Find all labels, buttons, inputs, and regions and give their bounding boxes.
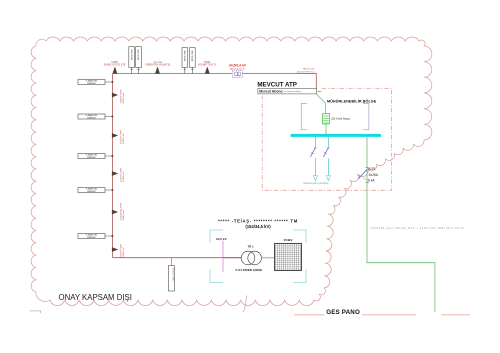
revision cloud: ONAY KAPSAM DIŞI boundary — [31, 37, 432, 312]
feeder label box B2 — [78, 114, 113, 119]
svg-text:VOLMHT GYB TL: VOLMHT GYB TL — [198, 65, 217, 67]
svg-text:36kV 630A: 36kV 630A — [183, 50, 186, 61]
feeder label box B5 — [78, 234, 113, 239]
svg-text:3x400 mm²: 3x400 mm² — [122, 209, 125, 220]
svg-text:3x(1x95/16) XLPE: 3x(1x95/16) XLPE — [120, 202, 122, 220]
feeder tap arrow L3 + cable label — [112, 167, 125, 182]
enclosure: TM corner brackets (teal) — [210, 230, 306, 283]
label: MÜHÜRLENEBİLİR BÖLGE — [327, 99, 377, 104]
svg-text:L2=4x10 mm² (3F+N) NYY + 1x10: L2=4x10 mm² (3F+N) NYY + 1x10 mm² (PE) N… — [370, 226, 466, 230]
node: ATP feed corner labels (cable tags) — [297, 67, 316, 73]
svg-text:GES PANO: GES PANO — [326, 309, 360, 316]
svg-text:3x95/16 XLPE: 3x95/16 XLPE — [172, 268, 174, 281]
svg-text:(154/34,5 kV): (154/34,5 kV) — [245, 224, 271, 229]
svg-text:36kV 630A: 36kV 630A — [137, 49, 140, 60]
svg-text:3x400 mm²: 3x400 mm² — [122, 133, 125, 144]
svg-text:36kV 630A: 36kV 630A — [130, 49, 133, 60]
svg-text:MERKEZİ: MERKEZİ — [87, 236, 96, 239]
svg-text:Mevcut Abone: ···············: Mevcut Abone: ··············· — [259, 90, 301, 94]
svg-text:***** -TEİAŞ- ******** ******: ***** -TEİAŞ- ******** ****** TM — [218, 218, 298, 223]
svg-text:6 kA: 6 kA — [368, 178, 375, 182]
cable tag (vertical) on bottom run — [168, 258, 174, 291]
breaker iAOS 4x25A 6kA (open blade) — [357, 167, 379, 182]
surge arrester arrow A1 on top bus + value label — [104, 62, 126, 74]
bus: 34,5 kV bus (magenta) — [222, 241, 224, 273]
meter M1: Çift Yönlü Sayaç (bidirectional kWh meter) — [323, 114, 351, 125]
wire: GES feed (green) busbar to GES PANO — [367, 137, 435, 312]
svg-text:3x95/16 XLPE: 3x95/16 XLPE — [120, 89, 122, 104]
svg-text:TMŞB: TMŞB — [204, 62, 211, 64]
fuse-disconnector pair F2 — [182, 48, 195, 74]
svg-text:iAOS: iAOS — [368, 167, 376, 171]
seal area bracket left — [301, 103, 307, 130]
wire: metered feed (green) into meter — [316, 94, 325, 114]
busbar: LV distribution bar (cyan) — [291, 134, 381, 137]
svg-text:MEVCUT ATP: MEVCUT ATP — [257, 82, 297, 89]
svg-text:SKMKLYD GYD ŞTB: SKMKLYD GYD ŞTB — [104, 65, 126, 67]
label: 154kV — [284, 238, 294, 242]
seal area bracket right — [363, 103, 369, 130]
feeder label box B4 — [78, 188, 113, 193]
svg-text:3x95/16 XLPE: 3x95/16 XLPE — [120, 167, 122, 182]
label: MEVCUT ATP — [257, 82, 297, 89]
svg-text:3+1 ŞLJ: 3+1 ŞLJ — [154, 62, 163, 64]
feeder label box B3 — [78, 154, 113, 159]
label box: Mevcut Abone — [258, 88, 321, 94]
svg-text:3x400 mm²: 3x400 mm² — [122, 171, 125, 182]
svg-text:4x25A: 4x25A — [369, 173, 379, 177]
svg-text:MERKEZİ: MERKEZİ — [87, 156, 96, 159]
svg-text:MERKEZİ: MERKEZİ — [87, 116, 96, 119]
feeder tap arrow L4 + cable label — [112, 202, 125, 220]
feeder tap arrow L1 + cable label — [112, 89, 125, 104]
wire: left feeder bus — [112, 74, 114, 258]
wire: MV top bus (right section to ATP corner) — [243, 74, 317, 95]
svg-text:NH00 gL/gG 3x: NH00 gL/gG 3x — [230, 68, 246, 70]
label: ONAY KAPSAM DIŞI — [59, 293, 132, 302]
svg-text:3x95/16 XLPE: 3x95/16 XLPE — [120, 129, 122, 144]
svg-text:TMŞB: TMŞB — [111, 62, 118, 64]
cable label L2 (GES feed cable) — [370, 226, 466, 230]
svg-text:MERKEZİ: MERKEZİ — [87, 82, 96, 85]
block title: TEİAŞ TM — [218, 218, 298, 228]
wire: MV top bus (left section) — [113, 73, 233, 75]
breaker Q2: existing pano feeder 2 (open switch + arrow) — [323, 137, 330, 181]
svg-text:mevcut pano çıkışları: mevcut pano çıkışları — [303, 181, 329, 185]
svg-text:F-04 FİDER ÇIKIŞI: F-04 FİDER ÇIKIŞI — [236, 268, 263, 272]
feeder label box B1 — [78, 80, 113, 85]
label: mevcut pano çıkışları — [303, 181, 329, 185]
svg-text:TR 1: TR 1 — [248, 245, 255, 249]
svg-text:34,5 kV: 34,5 kV — [216, 237, 228, 241]
svg-text:3x95/16 XLPE: 3x95/16 XLPE — [120, 243, 122, 258]
fuse-disconnector pair F1 (two vertical cartridges with pins) — [129, 47, 142, 74]
surge arrester arrow A3 on top bus + value label — [198, 62, 217, 74]
panel: GES PANO (boundary line + label) — [294, 309, 470, 316]
svg-text:ONAY KAPSAM DIŞI: ONAY KAPSAM DIŞI — [59, 293, 132, 302]
svg-text:DARBNTGN VALMKTŞL: DARBNTGN VALMKTŞL — [145, 64, 171, 67]
label: F-04 FİDER ÇIKIŞI — [236, 268, 263, 272]
wire: meter to busbar (green) — [325, 124, 327, 134]
svg-text:MÜHÜRLENEBİLİR BÖLGE: MÜHÜRLENEBİLİR BÖLGE — [327, 99, 377, 104]
svg-text:NHÖÖ / gG*: NHÖÖ / gG* — [303, 67, 315, 70]
feeder tap arrow L2 + cable label — [112, 129, 125, 144]
wire: bottom run to TEİAŞ TM — [113, 257, 242, 259]
enclosure: MEVCUT ATP (dash-dot box) — [262, 89, 391, 191]
svg-text:3x400 mm²: 3x400 mm² — [122, 92, 125, 103]
svg-text:3x6 mm² NYY msc: 3x6 mm² NYY msc — [297, 71, 316, 74]
svg-text:154kV: 154kV — [284, 238, 294, 242]
svg-text:36kV 630A: 36kV 630A — [191, 50, 194, 61]
transformer T2 34,5/0,4 kV (dashed box, two circles) + rating label — [229, 63, 247, 77]
feeder tap arrow L5 + cable label — [112, 243, 125, 258]
label: 34,5 kV — [216, 237, 228, 241]
breaker Q1: existing pano feeder 1 (open switch + arrow) — [310, 137, 317, 181]
svg-text:Çift Yönlü Sayaç: Çift Yönlü Sayaç — [331, 118, 350, 121]
svg-text:3x400 mm²: 3x400 mm² — [122, 247, 125, 258]
wire: TM bus to TR1 — [223, 257, 242, 259]
wire: TR1 to 154kV switchyard (green) — [261, 257, 274, 259]
switchyard: 154 kV grid square — [275, 244, 302, 271]
surge arrester arrow A2 on top bus + value label — [145, 62, 171, 74]
svg-text:34,5/0,4 kV: 34,5/0,4 kV — [229, 63, 247, 67]
transformer TR1 (two circles) + label — [241, 245, 261, 265]
svg-text:MERKEZİ: MERKEZİ — [87, 190, 96, 193]
